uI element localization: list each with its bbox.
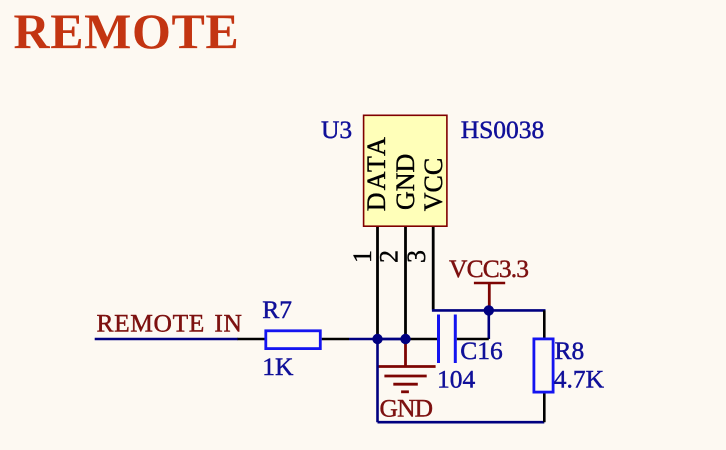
junction dot A — [372, 334, 382, 344]
capacitor C16 — [406, 315, 489, 364]
U3 pin 3 wire — [432, 227, 435, 310]
svg-text:GND: GND — [391, 154, 420, 210]
svg-text:4.7K: 4.7K — [554, 364, 605, 393]
junction dot VCC node — [484, 305, 494, 315]
svg-text:R8: R8 — [555, 336, 585, 365]
ground symbol GND — [378, 342, 436, 392]
resistor R8 — [534, 310, 553, 422]
svg-text:HS0038: HS0038 — [461, 115, 545, 144]
wire VCC node down to C16 — [487, 310, 490, 339]
wire junction A to junction B — [378, 338, 407, 341]
svg-text:C16: C16 — [460, 336, 503, 365]
wire bottom horizontal — [378, 421, 545, 424]
U3 pin 2 wire — [404, 227, 407, 339]
power symbol VCC3.3 — [474, 283, 505, 308]
svg-text:2: 2 — [375, 250, 404, 263]
svg-text:R7: R7 — [262, 295, 292, 324]
wire junction A down — [376, 339, 379, 422]
svg-text:GND: GND — [380, 394, 433, 423]
svg-text:U3: U3 — [321, 115, 352, 144]
svg-text:104: 104 — [437, 365, 476, 394]
wire pin3 to R8 top — [432, 309, 546, 312]
resistor R7 — [238, 331, 350, 349]
svg-text:REMOTE: REMOTE — [14, 3, 240, 59]
svg-text:3: 3 — [402, 250, 431, 263]
svg-text:1K: 1K — [262, 352, 294, 381]
wire net REMOTE_IN horizontal — [95, 338, 238, 341]
junction dot B — [400, 334, 410, 344]
svg-text:1: 1 — [348, 250, 377, 263]
svg-text:VCC3.3: VCC3.3 — [449, 254, 528, 283]
op-amp U3 body — [362, 115, 448, 226]
svg-text:DATA: DATA — [362, 135, 391, 211]
svg-text:VCC: VCC — [419, 158, 448, 211]
svg-text:REMOTE IN: REMOTE IN — [97, 309, 243, 338]
U3 pin 1 wire — [376, 227, 379, 339]
wire R7 to junction A — [349, 338, 406, 341]
